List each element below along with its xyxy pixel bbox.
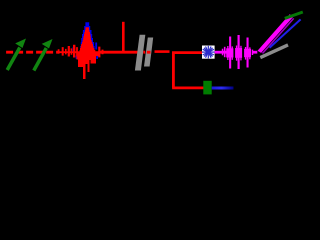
wire: dashed red input beam: [6, 51, 58, 54]
wire: red branch down and right to SHG crystal: [172, 52, 204, 88]
dark magenta beam edge: [263, 18, 294, 53]
focused magenta beam band: [258, 14, 294, 53]
glass wedge plate 2 (gray): [144, 38, 153, 67]
pulse 2: [235, 48, 242, 58]
glass wedge plate 1 (gray): [135, 35, 145, 71]
lead-in wiggles: [222, 49, 224, 56]
wire: solid red after plates: [155, 50, 170, 53]
vertical red marker line: [122, 22, 125, 54]
white-light crystal box: [202, 46, 215, 59]
focused blue beam: [270, 19, 301, 47]
magenta pulse train: 3 pulses: [222, 35, 253, 69]
wire: magenta dash to mirror: [252, 51, 257, 54]
wire: blue output beam from crystal: [212, 87, 234, 90]
turning mirror (gray): [260, 43, 289, 59]
polarization arrow 2 (green): [34, 39, 53, 71]
pulse 1: [226, 48, 233, 57]
wire: main red line to crystal box: [172, 51, 203, 54]
starburst inside box (blue): [202, 46, 215, 59]
right wing bars: [98, 47, 103, 58]
chirped pulse (red) waveform: [58, 27, 104, 79]
central upper triangle: [80, 27, 96, 52]
pulse 3: [244, 49, 251, 57]
polarization arrow 1 (green): [7, 39, 26, 71]
wire: magenta beam out of box: [215, 51, 227, 54]
left wing bars: [58, 45, 78, 58]
central lower lobes: [77, 52, 99, 79]
SHG crystal (green): [203, 81, 211, 95]
wire: red dash across plate 2: [143, 51, 150, 54]
compressed pulse (blue) behind chirped pulse: [73, 22, 98, 59]
wire: pulse baseline: [58, 51, 103, 53]
wire: solid red beam to plates: [100, 51, 138, 54]
target bar (dark green): [285, 12, 303, 18]
lead-out wiggle: [252, 50, 254, 55]
